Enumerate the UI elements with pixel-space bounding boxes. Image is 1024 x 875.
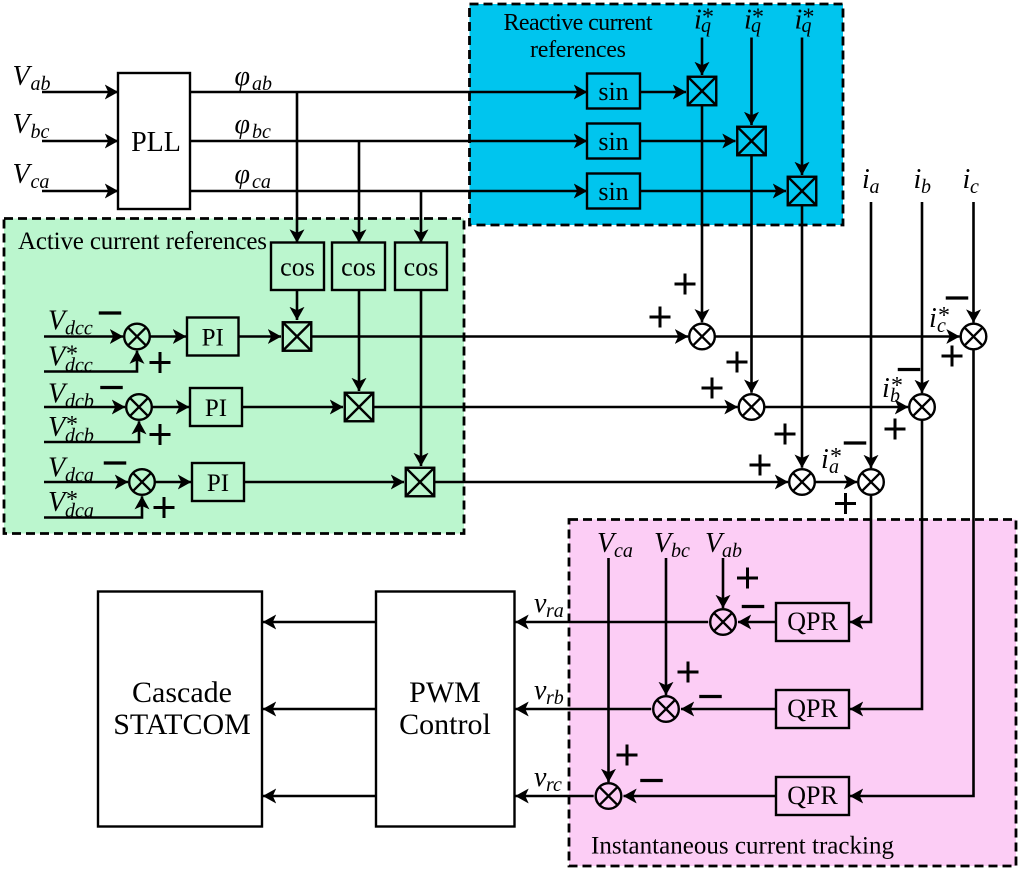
wire QPR2 to summer T_b	[681, 708, 776, 711]
block PWM Control	[376, 592, 515, 827]
svg-text:QPR: QPR	[787, 781, 838, 810]
svg-text:PWM: PWM	[409, 676, 481, 709]
block PLL	[118, 73, 190, 209]
wire v_rb to PWM	[516, 708, 652, 711]
wire V_dcb to summer E2	[44, 406, 125, 409]
wire S1c to summer S2c	[715, 335, 960, 338]
wire i_b down to summer S2b	[921, 202, 924, 393]
wire cos2 down to multiplier G2	[358, 290, 361, 391]
svg-text:STATCOM: STATCOM	[113, 708, 251, 741]
summer E2	[126, 394, 152, 420]
summer E1	[124, 324, 150, 350]
block sin1	[587, 74, 640, 109]
svg-text:V: V	[13, 109, 33, 140]
wire PI1 to multiplier G1	[239, 335, 282, 338]
wire phi_bc PLL to sin2	[190, 140, 587, 143]
wire PWM to STATCOM a	[263, 621, 376, 624]
svg-text:ca: ca	[614, 540, 633, 562]
block PI1	[187, 318, 239, 356]
plus sign above summer S1b	[727, 352, 748, 373]
plus sign above summer S1a	[775, 424, 796, 445]
wire phi_ab branch down to cos1	[296, 92, 299, 243]
minus sign summer E2	[100, 386, 123, 389]
wire v_rc to PWM	[516, 795, 594, 798]
wire i_q*1 down to multiplier M1	[701, 38, 704, 76]
wire v_ra to PWM	[516, 621, 709, 624]
region reactive current references (cyan box)	[470, 4, 844, 225]
wire M1 down to summer S1c	[701, 105, 704, 322]
wire V_dcc to summer E1	[44, 335, 123, 338]
minus sign summer T_c	[640, 779, 663, 782]
svg-text:*: *	[803, 5, 815, 31]
svg-text:PI: PI	[207, 470, 229, 497]
svg-text:cos: cos	[341, 253, 376, 282]
svg-text:ra: ra	[546, 600, 564, 622]
svg-text:V: V	[13, 61, 33, 92]
wire G1 to summer S1c	[311, 335, 688, 338]
wire cos3 down to multiplier G3	[420, 290, 423, 466]
svg-text:φ: φ	[235, 109, 251, 140]
plus sign left summer S1a	[750, 455, 771, 476]
wire S2a error to QPR1	[850, 495, 871, 622]
block cos1	[271, 243, 324, 291]
wire S2c error to QPR3	[850, 349, 974, 796]
svg-text:a: a	[870, 176, 880, 198]
svg-text:*: *	[66, 342, 78, 368]
wire sin1 to M1	[640, 91, 686, 94]
svg-text:*: *	[66, 487, 78, 513]
summer T_b	[653, 696, 679, 722]
svg-text:i: i	[882, 373, 890, 404]
svg-text:Control: Control	[399, 708, 491, 741]
wire summer E2 to PI2	[152, 406, 189, 409]
wire phi_ca branch down to cos3	[420, 191, 423, 243]
wire QPR1 to summer T_a	[738, 621, 776, 624]
svg-text:rb: rb	[546, 687, 564, 709]
summer S2b	[909, 394, 935, 420]
multiplier M1	[688, 77, 717, 106]
svg-text:QPR: QPR	[787, 694, 838, 723]
wire V*_dca feedback to summer E3	[44, 496, 142, 517]
svg-text:dcb: dcb	[65, 391, 94, 413]
region active current references (green box)	[4, 219, 464, 534]
wire G3 to summer S1a	[434, 481, 788, 484]
block PI3	[192, 463, 244, 501]
summer S1b	[739, 394, 765, 420]
wire S1b to summer S2b	[764, 406, 908, 409]
svg-text:φ: φ	[235, 159, 251, 190]
plus sign summer E2	[150, 424, 171, 445]
minus sign summer S2b	[898, 368, 921, 371]
wire S1a to summer S2a	[815, 481, 857, 484]
wire V_ab down to summer T_a	[722, 558, 725, 608]
block cos3	[395, 243, 447, 291]
plus sign left summer S1c	[650, 307, 671, 328]
wire i_c down to summer S2c	[972, 202, 975, 323]
wire PI3 to multiplier G3	[244, 481, 404, 484]
wire V*_dcb feedback to summer E2	[44, 421, 139, 442]
block QPR3	[776, 777, 849, 815]
wire PI2 to multiplier G2	[242, 406, 343, 409]
svg-text:Cascade: Cascade	[132, 676, 232, 709]
multiplier G3	[406, 468, 435, 497]
multiplier M2	[737, 127, 766, 156]
svg-text:*: *	[891, 373, 903, 399]
wire i_q*3 down to multiplier M3	[801, 38, 804, 176]
wire sin3 to M3	[640, 190, 786, 193]
svg-text:c: c	[970, 176, 979, 198]
wire phi_bc branch down to cos2	[358, 141, 361, 243]
svg-text:V: V	[13, 159, 33, 190]
plus sign above summer S1c	[675, 274, 696, 295]
plus sign summer T_b	[678, 662, 699, 683]
wire M3 down to summer S1a	[801, 205, 804, 468]
wire V_dca to summer E3	[44, 481, 128, 484]
wire phi_ab PLL to sin1	[190, 91, 587, 94]
block QPR1	[776, 603, 849, 641]
wire phi_ca PLL to sin3	[190, 190, 587, 193]
svg-text:cos: cos	[404, 253, 439, 282]
block Cascade STATCOM	[98, 592, 262, 827]
svg-text:QPR: QPR	[787, 607, 838, 636]
wire V_ca down to summer T_c	[607, 558, 610, 782]
wire G2 to summer S1b	[373, 406, 737, 409]
svg-text:references: references	[530, 37, 626, 63]
wire V_ab to PLL	[42, 91, 118, 94]
svg-text:Active current references: Active current references	[18, 228, 267, 255]
svg-text:*: *	[702, 5, 714, 31]
wire PWM to STATCOM b	[263, 708, 376, 711]
multiplier M3	[788, 177, 817, 206]
wire cos1 down to multiplier G1	[296, 290, 299, 320]
summer S1c	[689, 324, 715, 350]
block sin2	[587, 124, 640, 159]
wire summer E3 to PI3	[155, 481, 191, 484]
plus sign summer T_c	[617, 745, 638, 766]
minus sign summer E3	[104, 461, 127, 464]
svg-text:*: *	[66, 412, 78, 438]
region instantaneous current tracking (pink box)	[569, 520, 1016, 867]
svg-text:cos: cos	[280, 253, 315, 282]
wire S2b error to QPR2	[850, 420, 922, 709]
block PI2	[190, 388, 242, 426]
minus sign summer T_b	[699, 695, 722, 698]
wire QPR3 to summer T_c	[624, 795, 777, 798]
svg-text:i: i	[821, 444, 829, 475]
svg-text:sin: sin	[598, 177, 628, 206]
plus sign summer S2a	[835, 493, 856, 514]
svg-text:φ: φ	[235, 61, 251, 92]
block QPR2	[776, 690, 849, 728]
wire V_bc to PLL	[42, 140, 118, 143]
svg-text:rc: rc	[546, 774, 562, 796]
summer T_c	[596, 783, 622, 809]
svg-text:bc: bc	[671, 540, 690, 562]
plus sign left summer S1b	[702, 378, 723, 399]
summer S1a	[789, 469, 815, 495]
multiplier G1	[283, 322, 312, 351]
svg-text:sin: sin	[598, 77, 628, 106]
plus sign summer E3	[154, 497, 175, 518]
wire PWM to STATCOM c	[263, 795, 376, 798]
plus sign summer S2c	[942, 346, 963, 367]
svg-text:*: *	[938, 303, 950, 329]
minus sign summer E1	[99, 311, 122, 314]
wire V_bc down to summer T_b	[665, 558, 668, 695]
block sin3	[587, 174, 640, 209]
svg-text:PI: PI	[205, 395, 227, 422]
minus sign summer S2c	[946, 296, 969, 299]
wire M2 down to summer S1b	[750, 155, 753, 393]
minus sign summer T_a	[742, 605, 765, 608]
svg-text:i: i	[929, 303, 937, 334]
svg-text:ab: ab	[722, 540, 742, 562]
wire sin2 to M2	[640, 140, 736, 143]
svg-text:Instantaneous current tracking: Instantaneous current tracking	[591, 833, 895, 860]
svg-text:*: *	[752, 5, 764, 31]
svg-text:PLL: PLL	[131, 127, 181, 158]
plus sign summer E1	[150, 352, 171, 373]
svg-text:b: b	[921, 176, 931, 198]
svg-text:*: *	[830, 444, 842, 470]
svg-text:sin: sin	[598, 127, 628, 156]
summer S2c	[961, 324, 987, 350]
wire summer E1 to PI1	[150, 335, 186, 338]
wire V_ca to PLL	[42, 190, 118, 193]
svg-text:PI: PI	[202, 325, 224, 352]
plus sign summer S2b	[885, 419, 906, 440]
svg-text:Reactive current: Reactive current	[504, 10, 653, 36]
summer E3	[129, 469, 155, 495]
block cos2	[332, 243, 385, 291]
wire i_a down to summer S2a	[870, 202, 873, 468]
summer S2a	[858, 469, 884, 495]
multiplier G2	[345, 393, 374, 422]
summer T_a	[710, 609, 736, 635]
plus sign summer T_a	[737, 568, 758, 589]
wire i_q*2 down to multiplier M2	[750, 38, 753, 126]
minus sign summer S2a	[844, 441, 867, 444]
wire V*_dcc feedback to summer E1	[44, 351, 137, 372]
